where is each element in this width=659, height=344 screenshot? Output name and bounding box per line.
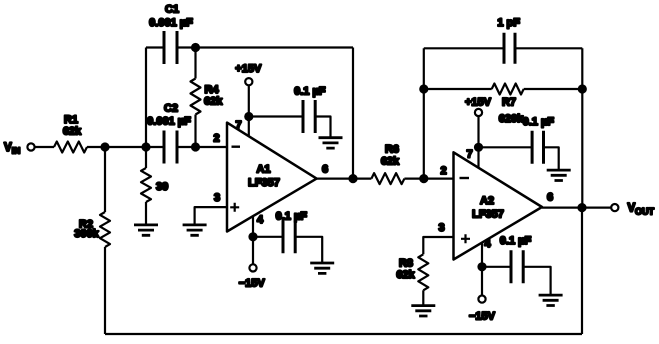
A2 pin 3 stub: [423, 237, 453, 254]
svg-text:LF357: LF357: [248, 177, 280, 189]
wire R7 rail left: [424, 88, 492, 90]
svg-text:LF357: LF357: [472, 209, 504, 221]
resistor R6: [371, 144, 404, 185]
svg-text:A1: A1: [256, 164, 270, 176]
wire bottom rail: [105, 333, 582, 335]
terminal VIN: [27, 143, 34, 150]
A1 minus sign: [232, 145, 241, 147]
svg-text:7: 7: [235, 120, 241, 132]
ground below 39: [134, 225, 158, 235]
wire cap to ground A1 bottom: [295, 237, 322, 263]
wire pin7 to bypass cap A2: [479, 146, 533, 148]
svg-text:4: 4: [257, 214, 264, 226]
svg-text:R8: R8: [399, 258, 413, 270]
wire pin7 to bypass cap: [249, 115, 303, 117]
wire cap to ground A2 bottom: [523, 267, 550, 295]
A2 pin 7 wire: [477, 116, 479, 168]
svg-text:2: 2: [440, 165, 446, 177]
terminal VOUT: [611, 204, 618, 211]
wire pin4 to bypass cap A2: [482, 266, 511, 268]
wire A2 output: [542, 207, 611, 209]
node A2 pin7: [474, 143, 483, 152]
svg-text:A2: A2: [480, 195, 494, 207]
svg-text:39: 39: [156, 181, 168, 193]
node A1 pin4: [248, 232, 257, 241]
resistor R2: [74, 147, 110, 247]
node C1/R4 top: [191, 43, 200, 52]
terminal +15V A1: [245, 78, 252, 85]
wire top rail left segment: [146, 46, 164, 48]
wire left vertical to top rail: [145, 48, 147, 148]
ground below R8: [411, 306, 435, 316]
svg-text:OUT: OUT: [635, 207, 655, 217]
wire R6 to pin2 A2: [404, 178, 453, 180]
A1 pin 3 ground stub: [195, 207, 227, 225]
wire A1 feedback vertical: [352, 48, 354, 179]
svg-text:0.1 µF: 0.1 µF: [294, 86, 326, 98]
node A2 output: [577, 203, 586, 212]
svg-text:1 pF: 1 pF: [497, 17, 520, 29]
A2 pin 4 wire: [481, 243, 483, 295]
capacitor 0.1uF A2 bottom: [500, 235, 532, 283]
terminal -15V A2: [478, 296, 485, 303]
node C2/R4 junction: [191, 142, 200, 151]
node A2 input: [419, 174, 428, 183]
svg-text:2: 2: [213, 133, 219, 145]
wire R2 bottom to bottom rail: [104, 247, 106, 334]
resistor R1: [54, 114, 87, 153]
svg-text:+15V: +15V: [465, 97, 492, 109]
svg-text:7: 7: [466, 149, 472, 161]
wire A2 feedback left vertical: [423, 48, 425, 178]
A1 plus sign: [230, 203, 239, 212]
svg-text:C2: C2: [164, 103, 178, 115]
capacitor 0.1uF A1 top: [294, 86, 326, 134]
A2 plus sign: [461, 234, 470, 243]
svg-text:R4: R4: [205, 84, 220, 96]
capacitor C2: [147, 103, 191, 164]
resistor 39: [141, 147, 168, 225]
capacitor 0.1uF A2 top: [523, 116, 555, 164]
svg-text:R7: R7: [502, 97, 516, 109]
ground at A2 -15V cap: [539, 295, 563, 305]
node A1 pin7: [244, 112, 253, 121]
terminal +15V A2: [475, 109, 482, 116]
svg-text:3: 3: [214, 192, 220, 204]
ground at A1 +15V cap: [319, 138, 343, 148]
wire R7 rail right: [524, 88, 583, 90]
svg-text:620k: 620k: [499, 113, 524, 125]
node R7 right: [578, 84, 587, 93]
wire 1pF rail right: [516, 47, 582, 49]
wire cap to ground A1 top: [315, 117, 330, 138]
op-amp A1: [227, 123, 317, 232]
svg-text:62k: 62k: [63, 126, 82, 138]
svg-text:300k: 300k: [74, 228, 99, 240]
resistor R7: [492, 84, 524, 126]
node input/R2: [100, 142, 109, 151]
wire 1pF rail left: [424, 47, 504, 49]
svg-text:6: 6: [547, 192, 553, 204]
svg-text:0.001 µF: 0.001 µF: [149, 17, 193, 29]
capacitor C1: [149, 4, 193, 65]
wire overall feedback right vertical: [581, 208, 583, 334]
ground at A1 pin 3: [183, 225, 207, 235]
svg-text:3: 3: [438, 222, 444, 234]
wire C2 to pin2 A1: [177, 146, 227, 148]
svg-text:−15V: −15V: [239, 278, 266, 290]
A1 pin 4 wire: [252, 216, 254, 264]
svg-text:IN: IN: [12, 146, 20, 156]
svg-text:C1: C1: [165, 4, 179, 16]
svg-text:0.1 µF: 0.1 µF: [523, 116, 555, 128]
wire pin4 to bypass cap: [253, 236, 283, 238]
svg-text:+15V: +15V: [235, 63, 262, 75]
op-amp A2: [454, 152, 543, 259]
ground at A1 -15V cap: [310, 263, 334, 273]
svg-text:0.1 µF: 0.1 µF: [500, 235, 532, 247]
svg-text:62k: 62k: [396, 269, 415, 281]
label VOUT: [628, 203, 655, 217]
capacitor 0.1uF A1 bottom: [276, 211, 308, 254]
terminal -15V A1: [249, 264, 256, 271]
svg-text:4: 4: [484, 238, 491, 250]
wire A2 feedback right vertical: [581, 48, 583, 207]
wire R1 to C2 (input line): [87, 146, 164, 148]
node A2 pin4: [477, 262, 486, 271]
svg-text:−15V: −15V: [469, 311, 496, 323]
svg-text:V: V: [4, 142, 12, 154]
node 39ohm/feedback tap: [141, 142, 150, 151]
svg-text:0.1 µF: 0.1 µF: [276, 211, 308, 223]
wire A1 output: [317, 178, 372, 180]
wire cap to ground A2 top: [543, 147, 558, 170]
capacitor 1pF: [497, 17, 520, 64]
ground at A2 +15V cap: [547, 170, 571, 180]
resistor R8: [396, 254, 428, 305]
svg-text:R1: R1: [64, 114, 78, 126]
svg-text:62k: 62k: [381, 156, 400, 168]
svg-text:R6: R6: [385, 144, 399, 156]
A1 pin 7 wire: [248, 85, 250, 136]
A2 minus sign: [460, 177, 470, 179]
node A1 output: [348, 174, 357, 183]
resistor R4: [191, 48, 224, 148]
svg-text:0.001 µF: 0.001 µF: [147, 116, 191, 128]
wire VIN to R1: [35, 146, 54, 148]
wire top rail to A1 output vertical: [177, 46, 353, 48]
label VIN: [4, 142, 20, 156]
svg-text:62k: 62k: [204, 96, 223, 108]
node R7 left: [419, 84, 428, 93]
svg-text:6: 6: [322, 164, 328, 176]
